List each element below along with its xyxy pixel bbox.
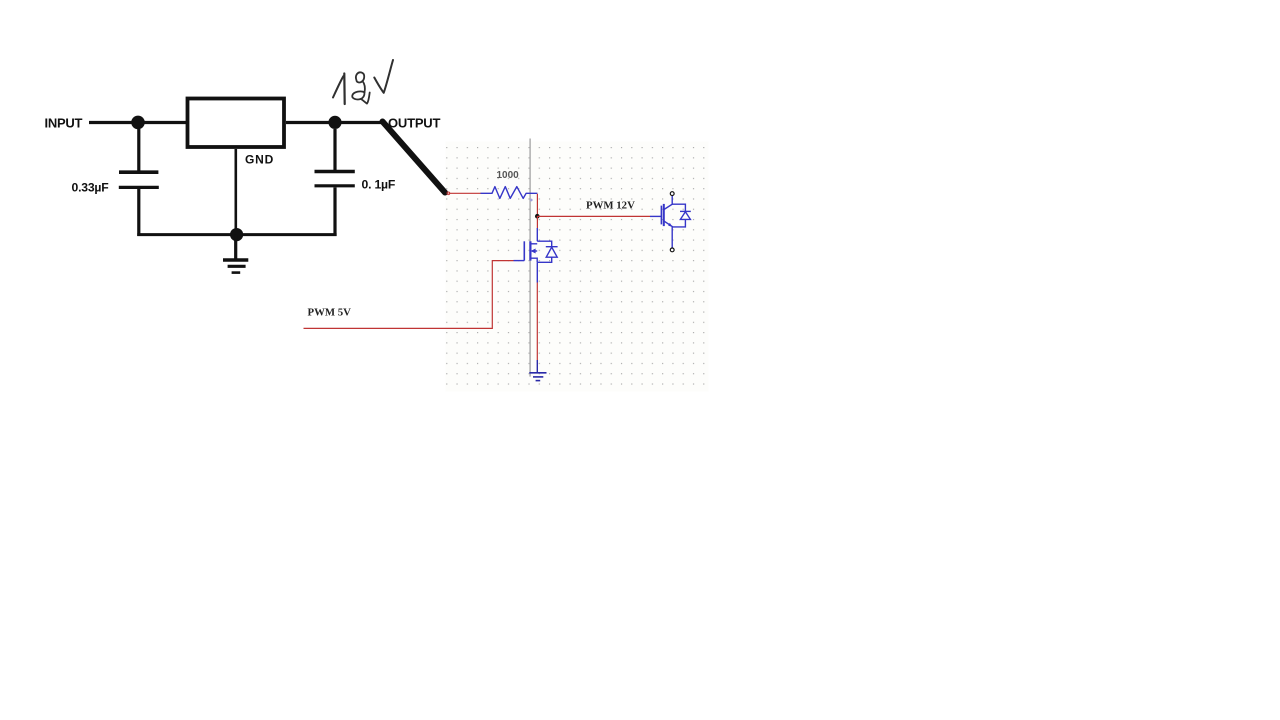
node Q2 top terminal (670, 192, 674, 196)
transistor Q2 IGBT with body diode (661, 196, 690, 248)
wire PWM 5V path (304, 261, 514, 329)
capacitor C1 0.33uF plates (119, 170, 158, 174)
wire right cap bottom lead (333, 188, 336, 237)
wire bottom rail (137, 233, 336, 236)
node terminal dot (447, 192, 450, 195)
schemeit vertical gray line (529, 139, 531, 377)
svg-text:0. 1µF: 0. 1µF (362, 177, 396, 191)
node input junction (131, 116, 145, 130)
wire left cap top lead (137, 129, 140, 171)
node junction dot (535, 214, 540, 219)
wire input segment (89, 121, 186, 124)
handwritten 12V annotation (333, 60, 393, 104)
resistor pin marker (530, 199, 533, 202)
svg-text:0.33µF: 0.33µF (72, 180, 109, 194)
ground symbol schemeit (529, 373, 546, 381)
wire junction down to Q1 drain (536, 216, 538, 228)
svg-text:OUTPUT: OUTPUT (388, 116, 441, 131)
grid background (446, 142, 709, 392)
wire red to Q2 gate (650, 215, 661, 217)
capacitor C2 0.1uF plates (315, 170, 355, 174)
svg-text:GND: GND (245, 153, 274, 167)
wire Q1 source down (536, 262, 538, 282)
svg-text:PWM 12V: PWM 12V (586, 200, 635, 212)
wire thick diagonal (handdrawn to OUTPUT) (383, 122, 446, 193)
wire output segment (286, 121, 383, 124)
wire red from diagonal to resistor (449, 192, 482, 194)
wire PWM 12V (537, 215, 650, 217)
ground symbol (223, 258, 248, 261)
wire left cap bottom lead (137, 189, 140, 236)
wire right cap top lead (333, 129, 336, 171)
wire to ground (234, 235, 237, 259)
node ground junction (230, 228, 243, 241)
svg-text:1000: 1000 (497, 170, 520, 181)
transistor Q1 NMOS with body diode (514, 241, 558, 262)
node Q2 bottom terminal (670, 248, 674, 252)
regulator U1 box (188, 99, 285, 148)
wire gnd pin down (235, 149, 238, 234)
node output junction (328, 116, 341, 129)
svg-text:PWM 5V: PWM 5V (308, 306, 352, 318)
resistor R1 1000 (481, 187, 538, 199)
regulator scan group (89, 99, 445, 273)
wire red resistor to junction (536, 194, 538, 216)
svg-text:INPUT: INPUT (45, 116, 83, 131)
